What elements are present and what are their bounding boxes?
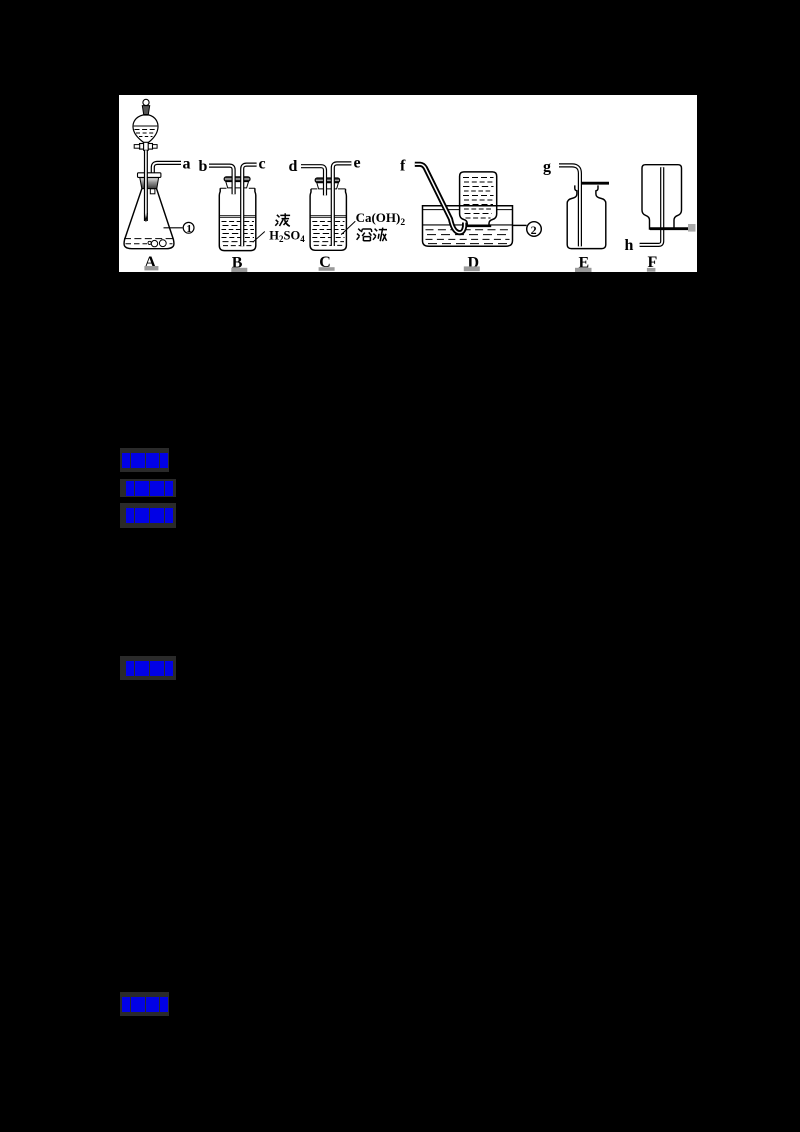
label jieda <box>120 656 176 680</box>
svg-text:c: c <box>259 156 266 173</box>
svg-text:1: 1 <box>186 223 192 235</box>
label 1 leader <box>164 227 183 229</box>
bottle outline <box>219 188 256 250</box>
tube h <box>640 167 663 245</box>
svg-text:a: a <box>183 156 191 173</box>
small stub under bung <box>150 189 155 194</box>
text rongye (fake CJK) <box>357 228 387 242</box>
stopcock <box>140 144 153 150</box>
svg-text:h: h <box>625 237 634 254</box>
stem tip <box>144 213 147 222</box>
gray block <box>688 224 696 232</box>
leader line <box>341 221 355 234</box>
bubbles <box>151 240 157 246</box>
label kaodian <box>120 448 169 472</box>
svg-text:Ca(OH)2: Ca(OH)2 <box>356 210 406 228</box>
liquid dashes <box>312 222 344 246</box>
bottle mouth edge <box>311 188 346 190</box>
bottle outline <box>310 189 346 250</box>
funnel stem (double line) <box>144 150 148 221</box>
funnel top ring <box>143 99 149 105</box>
funnel bulb <box>133 115 158 144</box>
gray bars under letters <box>144 266 655 272</box>
label fenxi <box>120 503 176 528</box>
collection bottle <box>460 172 497 226</box>
leader line <box>253 232 265 243</box>
funnel glass stopper <box>142 106 149 115</box>
svg-text:f: f <box>400 158 406 175</box>
stopper skirt <box>317 183 339 189</box>
trough <box>423 206 513 247</box>
funnel liquid surface <box>134 125 158 127</box>
side tube a <box>153 163 181 175</box>
svg-text:2: 2 <box>531 223 537 237</box>
stopper skirt <box>226 182 249 188</box>
liquid surface <box>220 215 256 217</box>
flask neck rim <box>138 173 161 178</box>
stopper plate <box>224 177 250 182</box>
tube g <box>559 165 580 246</box>
label dianping <box>120 992 169 1016</box>
apparatus diagram panel <box>119 95 697 272</box>
text nong (fake CJK) <box>275 213 290 226</box>
liquid dashes <box>222 222 255 246</box>
trough water line <box>423 224 512 226</box>
bottle water dashes <box>463 178 494 219</box>
glass plate <box>581 182 609 185</box>
glass plate <box>650 227 689 230</box>
tube e (long) <box>333 163 352 246</box>
label 1 circle <box>183 222 194 233</box>
bottle <box>567 185 606 248</box>
flask liquid dashes <box>124 238 174 240</box>
svg-text:g: g <box>543 159 551 176</box>
tube d (short) <box>301 166 325 195</box>
flask body <box>124 189 174 249</box>
svg-text:b: b <box>199 158 208 175</box>
bottle inverted <box>642 165 682 230</box>
trough water dashes <box>426 230 510 244</box>
svg-text:e: e <box>354 155 361 172</box>
tube b (short) <box>209 166 234 195</box>
label 2 circle <box>527 222 542 237</box>
liquid surface <box>310 215 346 217</box>
svg-text:H2SO4: H2SO4 <box>269 229 305 245</box>
funnel liquid dashes <box>135 129 157 131</box>
bottle mouth base <box>465 225 491 228</box>
bottle mouth edge <box>220 187 255 189</box>
rubber bung <box>140 178 159 189</box>
bent delivery tube f <box>415 164 465 232</box>
svg-text:d: d <box>289 158 298 175</box>
label zhuanti <box>120 479 176 497</box>
stopper plate <box>315 178 340 183</box>
tube c (long) <box>242 165 256 247</box>
label 2 leader <box>513 224 527 226</box>
